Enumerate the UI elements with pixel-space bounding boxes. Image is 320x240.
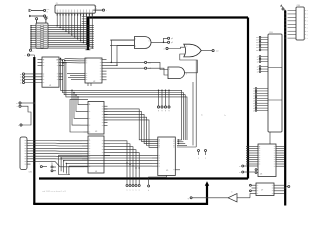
terminal above U1 xyxy=(25,54,35,58)
terminal RN1 common xyxy=(29,49,33,53)
wire gate outputs down xyxy=(193,60,196,147)
svg-text:CN3: CN3 xyxy=(269,32,273,34)
svg-text:o: o xyxy=(289,183,290,185)
svg-text:b: b xyxy=(148,190,149,192)
svg-text:16: 16 xyxy=(56,59,58,61)
svg-text:xx: xx xyxy=(257,71,259,73)
probe input A xyxy=(29,9,50,13)
wire bus drop junction xyxy=(62,60,66,64)
svg-text:xx: xx xyxy=(257,69,259,71)
svg-text:xxx: xxx xyxy=(256,37,259,39)
svg-text:2: 2 xyxy=(135,46,136,48)
svg-text:xx: xx xyxy=(253,108,255,110)
wire ladder rungs xyxy=(82,17,87,24)
svg-text:xx: xx xyxy=(257,61,259,63)
test point terminals on run xyxy=(157,90,170,112)
IC U6 xyxy=(246,132,284,177)
svg-text:U7: U7 xyxy=(261,190,263,192)
IC U7 xyxy=(250,183,285,196)
wire CN2 to U4 xyxy=(31,141,85,167)
terminal vt3 xyxy=(18,118,31,128)
resistor network RN1 xyxy=(36,23,48,49)
svg-text:in: in xyxy=(47,11,48,13)
svg-text:xx: xx xyxy=(20,77,22,79)
connector bt2 xyxy=(51,160,56,172)
svg-text:CN4: CN4 xyxy=(297,5,301,7)
svg-text:xxx: xxx xyxy=(256,45,259,47)
svg-text:1: 1 xyxy=(34,17,35,19)
svg-text:CN2: CN2 xyxy=(29,172,33,174)
svg-text:g: g xyxy=(162,110,163,112)
svg-text:xx: xx xyxy=(257,59,259,61)
wire G1 output xyxy=(151,37,173,44)
svg-text:xx: xx xyxy=(257,56,259,58)
IC U4 xyxy=(82,136,110,173)
connector CN4 xyxy=(285,5,308,40)
svg-text:b: b xyxy=(232,192,233,194)
wire U4 right to rail xyxy=(110,141,140,179)
svg-text:g: g xyxy=(169,110,170,112)
svg-text:g: g xyxy=(165,110,166,112)
svg-text:U1: U1 xyxy=(49,85,51,87)
svg-text:xx: xx xyxy=(253,98,255,100)
svg-text:g: g xyxy=(188,198,189,200)
svg-text:v: v xyxy=(25,55,26,57)
svg-text:a: a xyxy=(136,190,137,192)
connector CN3 xyxy=(268,32,282,132)
OR gate G2 xyxy=(184,44,201,57)
wire J1 pin drops to RN1 staircase xyxy=(48,13,94,49)
terminal group left of U1 xyxy=(20,73,42,85)
probe input B xyxy=(29,15,48,18)
svg-text:2: 2 xyxy=(47,18,48,20)
wire to U2 lower pins xyxy=(67,74,81,80)
AND gate G3 xyxy=(168,67,184,79)
terminal G3 inputs xyxy=(88,61,168,86)
svg-text:xx: xx xyxy=(253,103,255,105)
connector CN2 xyxy=(20,137,32,174)
wire U1 to U2 xyxy=(65,59,81,63)
IC U1 xyxy=(38,57,65,87)
svg-text:xx: xx xyxy=(253,93,255,95)
svg-text:xx: xx xyxy=(20,80,22,82)
connector J1 xyxy=(55,3,95,13)
wire U3 left feeds xyxy=(70,90,88,132)
wire G1 inputs xyxy=(107,40,135,66)
terminal pin xyxy=(45,17,48,23)
svg-text:4c: 4c xyxy=(201,115,203,117)
svg-text:xx: xx xyxy=(253,88,255,90)
svg-text:xxx: xxx xyxy=(256,42,259,44)
svg-text:1: 1 xyxy=(205,158,206,160)
svg-text:a: a xyxy=(139,190,140,192)
svg-text:1: 1 xyxy=(43,59,44,61)
svg-text:xx: xx xyxy=(253,96,255,98)
svg-text:c: c xyxy=(33,51,34,53)
terminal vt2 xyxy=(17,105,31,117)
svg-text:csd 1992 rev a sheet 1 of 1: csd 1992 rev a sheet 1 of 1 xyxy=(42,190,67,193)
svg-text:U2: U2 xyxy=(93,81,95,83)
svg-text:1: 1 xyxy=(198,158,199,160)
wire data run bus xyxy=(60,58,187,140)
IC U5 xyxy=(149,137,181,180)
svg-text:xx: xx xyxy=(253,110,255,112)
terminal OR input xyxy=(164,47,185,50)
svg-text:1: 1 xyxy=(135,39,136,41)
svg-text:tp: tp xyxy=(51,160,52,163)
svg-text:v+: v+ xyxy=(16,103,18,105)
svg-text:xxx: xxx xyxy=(256,47,259,49)
wire thick bus net VCC top xyxy=(39,17,248,179)
wire CN3 pins lower xyxy=(253,88,268,113)
wire buffer out xyxy=(188,197,228,200)
terminal pin xyxy=(34,17,37,23)
svg-text:xx: xx xyxy=(253,105,255,107)
svg-text:a: a xyxy=(127,190,128,192)
svg-text:U5: U5 xyxy=(166,170,168,172)
svg-text:xx: xx xyxy=(20,74,22,76)
svg-text:7: 7 xyxy=(43,75,44,77)
IC U3 xyxy=(81,102,108,135)
wire CN3 pins mid xyxy=(257,56,268,74)
buffer B1 xyxy=(228,192,252,202)
terminal REF xyxy=(93,6,107,12)
svg-text:1c: 1c xyxy=(224,115,226,117)
svg-text:xx: xx xyxy=(257,66,259,68)
wire thick bus net GND left xyxy=(33,57,209,205)
svg-text:xxx: xxx xyxy=(256,50,259,52)
svg-text:a: a xyxy=(133,190,134,192)
svg-text:U3: U3 xyxy=(95,131,97,133)
terminal vt1 xyxy=(16,102,35,105)
wire thick bus net right rail xyxy=(284,11,286,206)
svg-text:3: 3 xyxy=(149,41,150,43)
IC U2 xyxy=(81,58,107,83)
svg-text:xxx: xxx xyxy=(256,40,259,42)
wire RN1 left common bus xyxy=(30,25,36,49)
svg-text:p5: p5 xyxy=(171,42,173,44)
svg-text:a: a xyxy=(130,190,131,192)
svg-text:U6: U6 xyxy=(260,174,262,176)
wire bundle into U5 xyxy=(177,139,196,147)
wire U7 to terminal xyxy=(284,183,289,189)
wire G3 output loop to G2 xyxy=(180,54,198,75)
svg-text:xx: xx xyxy=(253,100,255,102)
terminal bt1 xyxy=(40,163,47,168)
svg-text:xx: xx xyxy=(253,91,255,93)
svg-text:xx: xx xyxy=(20,82,22,84)
terminal r2 xyxy=(239,171,255,174)
terminals below rail xyxy=(126,180,150,192)
wire U5 left runs xyxy=(59,155,153,175)
svg-text:U4: U4 xyxy=(95,171,97,173)
terminal r1 xyxy=(239,165,258,168)
wire G2 output xyxy=(201,50,219,53)
AND gate G1 xyxy=(110,37,151,49)
wire U3 to U5 xyxy=(104,109,158,147)
svg-text:4: 4 xyxy=(164,48,165,50)
svg-text:p4: p4 xyxy=(171,38,173,40)
wire CN3 pins upper xyxy=(256,36,268,51)
svg-text:g: g xyxy=(158,110,159,112)
test point TP3 TP4 xyxy=(198,150,207,160)
terminal top of right rail xyxy=(280,5,285,11)
